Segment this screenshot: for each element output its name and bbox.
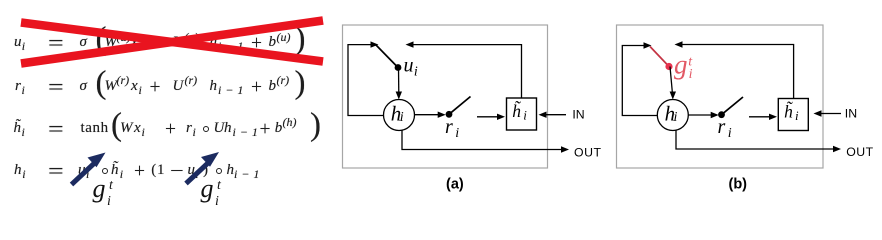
- label r_i: [445, 116, 459, 141]
- label OUT: [846, 145, 873, 159]
- box h~_i: [778, 99, 808, 131]
- node h_i circle: [657, 100, 688, 131]
- label r_i: [718, 116, 732, 141]
- wire: OUT from h_i bottom: [402, 131, 569, 153]
- wire: left feedback loop with arrowhead into switch u_i: [348, 41, 384, 115]
- label IN: [845, 107, 857, 121]
- wire: h_i right to switch r_i with arrowhead: [688, 112, 718, 118]
- caption (b): [729, 177, 748, 193]
- svg-text:i: i: [795, 108, 799, 123]
- node r_i pivot dot: [718, 111, 725, 118]
- node g_i^t pivot dot (red): [665, 63, 672, 70]
- label OUT: [574, 146, 601, 160]
- box h~_i: [507, 98, 537, 130]
- wire: h~_i box top feedback to switch u_i: [406, 41, 522, 98]
- wire: h_i right to switch r_i with arrowhead: [415, 112, 446, 118]
- node h_i circle: [384, 100, 415, 131]
- svg-text:IN: IN: [845, 107, 857, 121]
- svg-text:h̃: h̃: [784, 102, 793, 122]
- label IN: [572, 108, 584, 122]
- svg-text:i: i: [689, 67, 693, 82]
- equation r_i: [0, 75, 340, 101]
- switch u_i blade: [376, 45, 398, 68]
- wire: u_i dot down into h_i: [396, 68, 402, 100]
- wire: dot down into h_i: [670, 67, 676, 100]
- wire: OUT from h_i bottom: [676, 131, 841, 153]
- node r_i pivot dot: [446, 111, 453, 118]
- svg-text:i: i: [674, 110, 678, 125]
- label g_i^t (red): [674, 49, 693, 82]
- svg-text:r: r: [718, 116, 726, 138]
- svg-text:i: i: [728, 126, 732, 141]
- label g_i^t (right): [0, 0, 1, 1]
- wire: switch r_i to h~_i box with arrowhead: [749, 114, 777, 120]
- wire: h~_i box top feedback to switch g: [675, 41, 794, 98]
- svg-text:OUT: OUT: [846, 145, 873, 159]
- blue annotation arrow (right): [186, 152, 219, 184]
- equation u_i (crossed out): [0, 31, 340, 57]
- caption (a): [446, 177, 464, 193]
- label u_i: [404, 55, 418, 80]
- blue annotation arrow (left): [72, 153, 106, 185]
- outer frame (b): [617, 25, 824, 168]
- wire: IN arrow into h~_i box: [539, 112, 567, 118]
- wire: left feedback loop with arrowhead into switch g: [622, 42, 657, 115]
- switch r_i blade: [722, 97, 744, 115]
- switch r_i blade: [449, 97, 471, 115]
- equation h_i: [0, 159, 340, 185]
- wire: switch r_i to h~_i box with arrowhead: [477, 114, 505, 120]
- outer frame (a): [343, 25, 548, 168]
- label g_i^t (left): [0, 0, 1, 1]
- equation h~_i: [0, 117, 340, 143]
- svg-text:g: g: [674, 49, 688, 79]
- node u_i pivot dot: [395, 64, 402, 71]
- wire: IN arrow into h~_i box: [814, 110, 842, 116]
- svg-text:(b): (b): [729, 177, 748, 193]
- switch g_i^t blade (red): [650, 47, 669, 67]
